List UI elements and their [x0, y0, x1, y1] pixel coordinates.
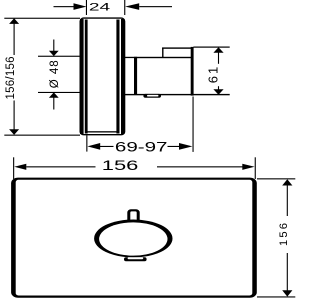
svg-text:156/156: 156/156 [5, 57, 17, 100]
svg-text:156: 156 [278, 223, 290, 246]
svg-text:156: 156 [102, 157, 139, 173]
svg-text:24: 24 [89, 1, 110, 13]
svg-text:69-97: 69-97 [115, 140, 168, 155]
svg-text:Ø 48: Ø 48 [49, 60, 61, 88]
